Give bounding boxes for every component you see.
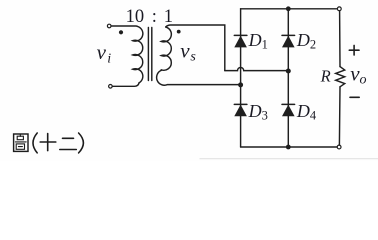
junction node bottom rail / right column bbox=[286, 145, 291, 150]
junction node top rail / right column bbox=[286, 6, 291, 11]
label minus sign bbox=[350, 96, 359, 98]
diode D4 bbox=[282, 104, 295, 116]
label plus sign bbox=[349, 45, 359, 55]
wire bridge left column bbox=[240, 9, 242, 147]
svg-text:D2: D2 bbox=[296, 30, 316, 51]
svg-text:vs: vs bbox=[180, 39, 196, 65]
caption glyph ten (cross) bbox=[40, 134, 56, 151]
terminal output top bbox=[337, 7, 341, 11]
core line left bbox=[147, 28, 149, 81]
wire load bottom bbox=[338, 87, 341, 145]
diode D3 bbox=[234, 104, 247, 116]
caption glyph two (bars) bbox=[60, 138, 77, 149]
terminal top-left bbox=[107, 24, 111, 28]
caption close paren bbox=[79, 133, 84, 153]
caption glyph TU (figure) bbox=[14, 134, 28, 151]
svg-text:vo: vo bbox=[350, 62, 366, 88]
wire bottom rail bbox=[241, 146, 338, 148]
junction node left column mid bbox=[238, 82, 243, 87]
wire load top bbox=[339, 11, 341, 67]
terminal output bottom bbox=[337, 145, 341, 149]
scan artifact bottom streak bbox=[200, 158, 378, 160]
wire primary top lead bbox=[111, 25, 137, 27]
svg-text:vi: vi bbox=[97, 40, 112, 66]
core line right bbox=[151, 28, 153, 81]
diode D2 bbox=[282, 35, 295, 47]
caption open paren bbox=[33, 133, 37, 153]
phase dot primary bbox=[119, 30, 123, 34]
svg-text:D3: D3 bbox=[248, 101, 268, 122]
svg-text:R: R bbox=[320, 66, 331, 85]
svg-text:10:1: 10:1 bbox=[126, 7, 173, 27]
junction node right column mid bbox=[286, 69, 291, 74]
wire mid with hop over left column bbox=[225, 68, 288, 71]
wire primary bottom lead bbox=[112, 83, 139, 86]
resistor R zigzag bbox=[336, 67, 345, 87]
svg-text:D1: D1 bbox=[248, 30, 268, 51]
wire bridge right column bbox=[287, 9, 289, 147]
wire top rail bbox=[241, 8, 338, 10]
terminal bottom-left bbox=[109, 85, 113, 89]
diode D1 bbox=[234, 35, 247, 47]
wire secondary bottom lead bbox=[157, 70, 240, 85]
svg-text:D4: D4 bbox=[296, 101, 317, 122]
wire secondary top lead to bridge bbox=[166, 25, 225, 71]
inductor primary winding bbox=[133, 26, 143, 83]
inductor secondary winding bbox=[161, 27, 171, 70]
phase dot secondary bbox=[177, 30, 181, 34]
